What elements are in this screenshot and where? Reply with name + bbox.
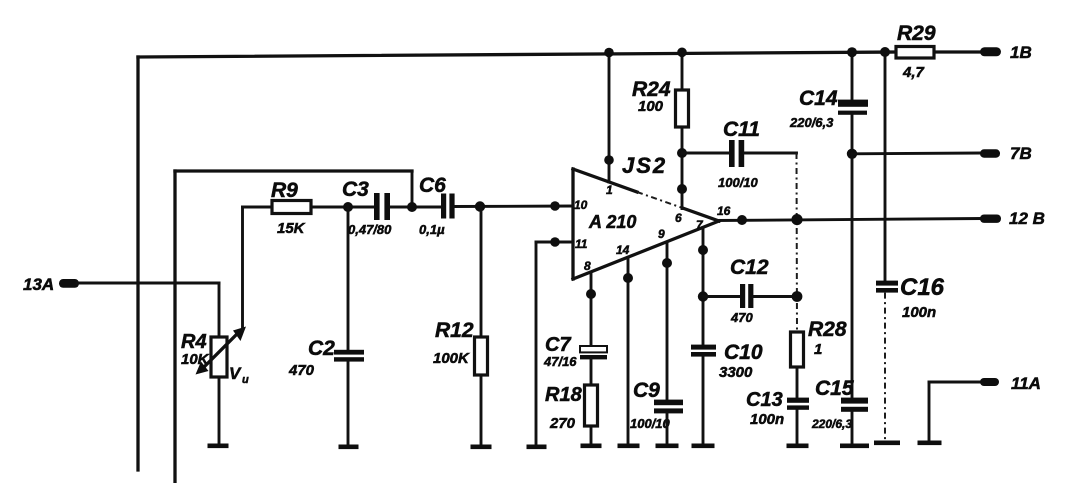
wire R4 bottom lead: [218, 377, 221, 444]
svg-text:100: 100: [638, 98, 664, 115]
svg-text:C2: C2: [308, 337, 335, 360]
potentiometer wiper arrow Vu: [196, 327, 250, 387]
wire 11A ground drop: [928, 382, 931, 440]
junction pin7 dot: [698, 245, 708, 255]
wire top supply rail left segment: [138, 52, 896, 57]
wire C14 node down to C15: [851, 154, 854, 398]
junction pin8 dot: [586, 289, 596, 299]
wire 11A row: [929, 381, 981, 384]
wire R18 bottom lead: [590, 426, 593, 444]
wire feedback loop vertical: [173, 171, 176, 483]
wire C14 to 7B row: [851, 115, 854, 154]
svg-text:A 210: A 210: [588, 212, 636, 232]
svg-text:16: 16: [717, 204, 731, 218]
capacitor C13: [746, 389, 809, 428]
junction pin9 dot: [662, 258, 672, 268]
svg-text:R4: R4: [181, 331, 207, 353]
svg-text:10: 10: [574, 198, 588, 212]
junction C12 left node: [698, 291, 708, 301]
capacitor C6: [419, 174, 455, 237]
svg-text:C13: C13: [746, 389, 783, 411]
svg-text:R18: R18: [545, 384, 583, 406]
svg-text:C15: C15: [815, 377, 854, 400]
svg-text:100n: 100n: [902, 304, 936, 321]
svg-text:470: 470: [288, 362, 315, 379]
svg-text:12 B: 12 B: [1009, 209, 1045, 228]
junction R12 tap: [475, 201, 485, 211]
junction C16 rail dot: [880, 47, 890, 57]
capacitor C9: [630, 379, 683, 431]
capacitor C3: [342, 178, 392, 237]
svg-text:V: V: [229, 364, 242, 383]
wire C12 left: [703, 295, 740, 298]
junction C14 rail dot: [847, 47, 857, 57]
resistor R12: [433, 319, 488, 375]
terminal 12B: [980, 209, 1045, 228]
svg-text:7B: 7B: [1010, 144, 1032, 163]
svg-text:11: 11: [575, 237, 588, 251]
svg-text:C12: C12: [730, 256, 769, 279]
svg-text:3300: 3300: [719, 364, 753, 381]
wire C7 to R18: [590, 359, 593, 385]
wire R4 top lead: [218, 283, 221, 337]
wire R24 top lead from rail: [681, 52, 684, 90]
svg-text:JS2: JS2: [622, 153, 667, 178]
svg-text:C7: C7: [545, 334, 571, 356]
terminal 11A: [980, 374, 1041, 393]
wire wiper to R9 vertical: [241, 207, 244, 330]
wire pin 11 ground drop: [535, 242, 538, 445]
svg-text:C3: C3: [342, 178, 369, 201]
ground C9: [656, 444, 679, 449]
wire R24 to pin 6: [681, 127, 684, 209]
junction output dot: [737, 215, 747, 225]
svg-text:15K: 15K: [277, 220, 306, 237]
svg-text:11A: 11A: [1011, 374, 1041, 393]
ground C10: [692, 444, 715, 449]
svg-text:C10: C10: [724, 341, 763, 364]
svg-text:14: 14: [616, 243, 630, 257]
wire C9 bottom lead: [666, 413, 669, 444]
svg-text:1: 1: [606, 183, 613, 197]
op-amp U1 A210 triangle: [573, 169, 719, 279]
ground pin 11: [527, 445, 547, 450]
svg-text:1B: 1B: [1010, 43, 1032, 62]
svg-text:C11: C11: [723, 118, 760, 141]
resistor R4: [181, 331, 227, 377]
wire C11 right: [744, 152, 796, 155]
svg-text:13A: 13A: [23, 275, 54, 294]
wire R9 left lead: [243, 206, 273, 209]
terminal 13A: [23, 275, 79, 294]
wire output 12B row: [716, 219, 981, 221]
wire pin 14 to ground: [627, 258, 630, 445]
wire feedback loop top: [175, 169, 412, 172]
svg-text:100/10: 100/10: [718, 175, 759, 190]
wire pin 7 lead: [702, 228, 705, 346]
wire C2 bottom lead: [347, 362, 350, 445]
wire R12 bottom lead: [480, 375, 483, 445]
wire C6 to pin 10: [455, 205, 573, 208]
junction pin14 dot: [623, 273, 633, 283]
ground C13: [787, 444, 809, 449]
wire pin 1 from rail: [608, 53, 611, 183]
svg-text:u: u: [242, 374, 249, 386]
capacitor C12: [730, 256, 769, 325]
wire feedback loop drop: [411, 171, 414, 207]
svg-text:100n: 100n: [750, 411, 784, 428]
svg-text:270: 270: [549, 415, 576, 432]
terminal 7B: [980, 144, 1032, 163]
wire C10 bottom lead: [702, 357, 705, 444]
wire C16 bottom dash-dot lead: [884, 293, 886, 440]
capacitor C15: [811, 377, 868, 431]
wire 13A row: [77, 282, 219, 285]
wire C12 right: [753, 295, 797, 298]
junction pin11 lead dot: [550, 237, 560, 247]
junction output R28 net dot: [791, 214, 802, 225]
junction pin1 rail dot: [604, 48, 614, 58]
ground R12: [471, 445, 492, 450]
wire R28 to C13: [796, 367, 799, 398]
junction 7B node: [847, 149, 857, 159]
wire left frame vertical: [136, 57, 139, 470]
svg-text:0,1µ: 0,1µ: [419, 222, 445, 237]
svg-text:C16: C16: [900, 274, 945, 301]
svg-text:4,7: 4,7: [902, 64, 925, 81]
capacitor C7: [543, 334, 607, 369]
wire C13 bottom lead: [796, 410, 799, 444]
wire C16 line from rail: [884, 52, 887, 281]
svg-text:1: 1: [814, 341, 822, 358]
svg-text:R9: R9: [271, 179, 298, 202]
capacitor C2: [288, 337, 364, 379]
ground 11A: [918, 441, 942, 446]
svg-text:470: 470: [730, 310, 753, 325]
junction R24 rail dot: [677, 48, 687, 58]
resistor R24: [632, 78, 689, 127]
capacitor C10: [691, 341, 763, 381]
wire C11 to R28 dash-dot net: [796, 153, 799, 332]
svg-text:C14: C14: [799, 87, 838, 110]
wire C3 to C6: [390, 206, 441, 209]
wire pin 8 lead: [590, 272, 593, 346]
ground R4: [208, 444, 229, 449]
resistor R9: [271, 179, 311, 237]
wire pin 9 lead: [666, 242, 669, 400]
junction C11 tap: [677, 148, 687, 158]
svg-text:R29: R29: [897, 22, 936, 45]
ground C15: [840, 444, 869, 449]
wire R12 top lead: [480, 207, 483, 337]
resistor R29: [896, 22, 936, 81]
svg-text:R12: R12: [435, 319, 474, 342]
svg-text:9: 9: [658, 227, 665, 241]
ground pin 14: [618, 444, 640, 449]
resistor R28: [791, 318, 847, 367]
resistor R18: [545, 384, 598, 432]
svg-text:100/10: 100/10: [630, 416, 671, 431]
terminal 1B: [980, 43, 1032, 62]
svg-text:220/6,3: 220/6,3: [811, 417, 852, 431]
wire C2 top lead: [347, 207, 350, 350]
capacitor C16: [876, 274, 945, 321]
ground C16: [874, 441, 900, 446]
svg-text:R28: R28: [808, 318, 847, 341]
svg-text:220/6,3: 220/6,3: [789, 115, 834, 130]
svg-text:C9: C9: [633, 379, 660, 402]
junction C2 tap: [343, 202, 353, 212]
junction loop drop: [407, 202, 417, 212]
junction pin10 lead dot: [550, 201, 560, 211]
wire C15 bottom lead: [851, 412, 854, 444]
wire pin 11 horizontal: [536, 241, 573, 244]
ground C2: [339, 445, 359, 450]
svg-text:47/16: 47/16: [543, 354, 577, 369]
wire top rail right segment after R29: [934, 50, 981, 53]
svg-text:6: 6: [675, 211, 682, 225]
ground R18: [581, 444, 602, 449]
wire R9 to C3: [311, 206, 374, 209]
capacitor C14: [789, 87, 868, 130]
svg-text:0,47/80: 0,47/80: [348, 222, 392, 237]
junction pin1 mid dot: [604, 155, 614, 165]
svg-text:C6: C6: [419, 174, 446, 197]
wire C14 top lead from rail: [851, 52, 854, 100]
junction pin6 lead dot: [677, 184, 687, 194]
capacitor C11: [718, 118, 760, 190]
wire C11 left: [682, 152, 729, 155]
wire 7B row: [852, 152, 981, 156]
svg-text:100K: 100K: [433, 350, 470, 367]
junction C12 right node: [792, 291, 803, 302]
